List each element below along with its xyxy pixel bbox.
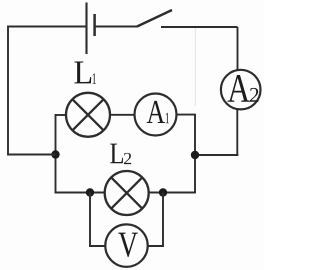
wire left bus vertical bbox=[7, 26, 9, 156]
battery cell (long plate) bbox=[85, 3, 87, 55]
junction node left bbox=[51, 150, 59, 158]
wire L2 right to corner bbox=[149, 192, 196, 194]
wire right vertical down to A2 bbox=[237, 27, 239, 71]
wire right branch vertical bbox=[194, 115, 196, 193]
wire left stub bbox=[8, 154, 56, 156]
label L2 bbox=[110, 144, 131, 164]
lamp L1 bbox=[66, 93, 110, 137]
lamp L2 bbox=[105, 171, 149, 215]
wire top-left horizontal bbox=[8, 26, 86, 28]
switch blade (open) bbox=[137, 10, 172, 27]
wire battery to switch bbox=[96, 26, 138, 28]
battery cell (short plate) bbox=[93, 14, 96, 36]
wire A2 bottom down bbox=[236, 109, 238, 156]
wire left branch vertical bbox=[55, 114, 57, 193]
junction node L2 right bbox=[159, 188, 167, 196]
label L1 bbox=[74, 61, 95, 83]
wire voltmeter right leg bbox=[147, 193, 164, 247]
junction node right bbox=[191, 151, 199, 159]
wire A1 to right corner bbox=[177, 114, 196, 116]
wire L1 left bbox=[56, 114, 67, 116]
switch fixed contact wire bbox=[161, 26, 238, 28]
ammeter A2 bbox=[221, 70, 261, 110]
wire voltmeter left leg bbox=[89, 193, 106, 247]
junction node L2 left bbox=[86, 188, 94, 196]
wire right stub to node bbox=[195, 154, 238, 156]
wire L1 to A1 bbox=[110, 114, 135, 116]
faint erased wire artifact bbox=[194, 28, 196, 106]
voltmeter V bbox=[105, 224, 147, 266]
wire lower-left horizontal to L2 bbox=[55, 192, 106, 194]
ammeter A1 bbox=[135, 94, 177, 136]
